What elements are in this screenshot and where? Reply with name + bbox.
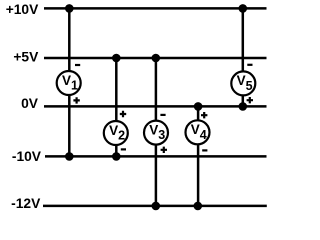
source V2 bbox=[104, 121, 128, 145]
polarity minus of V1 bbox=[75, 64, 80, 66]
wire V1 branch (+10V to -10V) bbox=[68, 8, 71, 156]
svg-text:+10V: +10V bbox=[6, 2, 39, 17]
polarity plus of V2 bbox=[120, 111, 126, 117]
svg-text:V: V bbox=[237, 73, 246, 88]
junction V3 bottom on -12V bbox=[152, 202, 161, 211]
svg-text:5: 5 bbox=[246, 79, 253, 93]
junction V5 top on +10V bbox=[239, 4, 248, 13]
net +10V rail bbox=[44, 7, 267, 10]
polarity minus of V4 bbox=[202, 149, 207, 151]
polarity plus of V4 bbox=[201, 112, 207, 118]
source V4 bbox=[186, 120, 210, 144]
wire V4 branch (0V to -12V) bbox=[197, 106, 200, 205]
net 0V rail bbox=[44, 105, 267, 108]
junction V4 bottom on -12V bbox=[194, 202, 203, 211]
source V3 bbox=[144, 121, 168, 145]
svg-text:V: V bbox=[191, 122, 200, 137]
svg-text:+5V: +5V bbox=[13, 49, 39, 64]
junction V3 top on +5V bbox=[152, 54, 161, 63]
svg-text:V: V bbox=[149, 122, 158, 137]
junction V2 bottom on -10V bbox=[112, 152, 121, 161]
polarity minus of V2 bbox=[121, 148, 126, 150]
source V5 bbox=[231, 71, 255, 95]
svg-text:3: 3 bbox=[158, 128, 165, 142]
svg-text:V: V bbox=[62, 73, 71, 88]
svg-text:4: 4 bbox=[200, 128, 207, 142]
net +5V rail bbox=[44, 57, 267, 60]
polarity minus of V3 bbox=[160, 114, 165, 116]
wire V5 branch (+10V to 0V) bbox=[242, 8, 245, 106]
svg-text:1: 1 bbox=[71, 79, 78, 93]
svg-text:-10V: -10V bbox=[12, 149, 42, 164]
svg-text:2: 2 bbox=[118, 129, 125, 143]
junction V4 top on 0V bbox=[194, 102, 203, 111]
net -10V rail bbox=[45, 155, 267, 158]
svg-text:V: V bbox=[109, 123, 118, 138]
junction V5 bottom on 0V bbox=[239, 102, 248, 111]
polarity plus of V1 bbox=[73, 97, 79, 103]
junction V1 top on +10V bbox=[65, 4, 74, 13]
svg-text:-12V: -12V bbox=[11, 196, 41, 211]
net -12V rail bbox=[43, 205, 267, 208]
junction V2 top on +5V bbox=[112, 54, 121, 63]
polarity plus of V3 bbox=[161, 147, 167, 153]
polarity plus of V5 bbox=[247, 97, 253, 103]
source V1 bbox=[57, 71, 81, 95]
wire V2 branch (+5V to -10V) bbox=[115, 58, 118, 156]
polarity minus of V5 bbox=[247, 64, 252, 66]
svg-text:0V: 0V bbox=[21, 96, 39, 111]
wire V3 branch (+5V to -12V) bbox=[155, 58, 158, 206]
junction V1 bottom on -10V bbox=[65, 152, 74, 161]
